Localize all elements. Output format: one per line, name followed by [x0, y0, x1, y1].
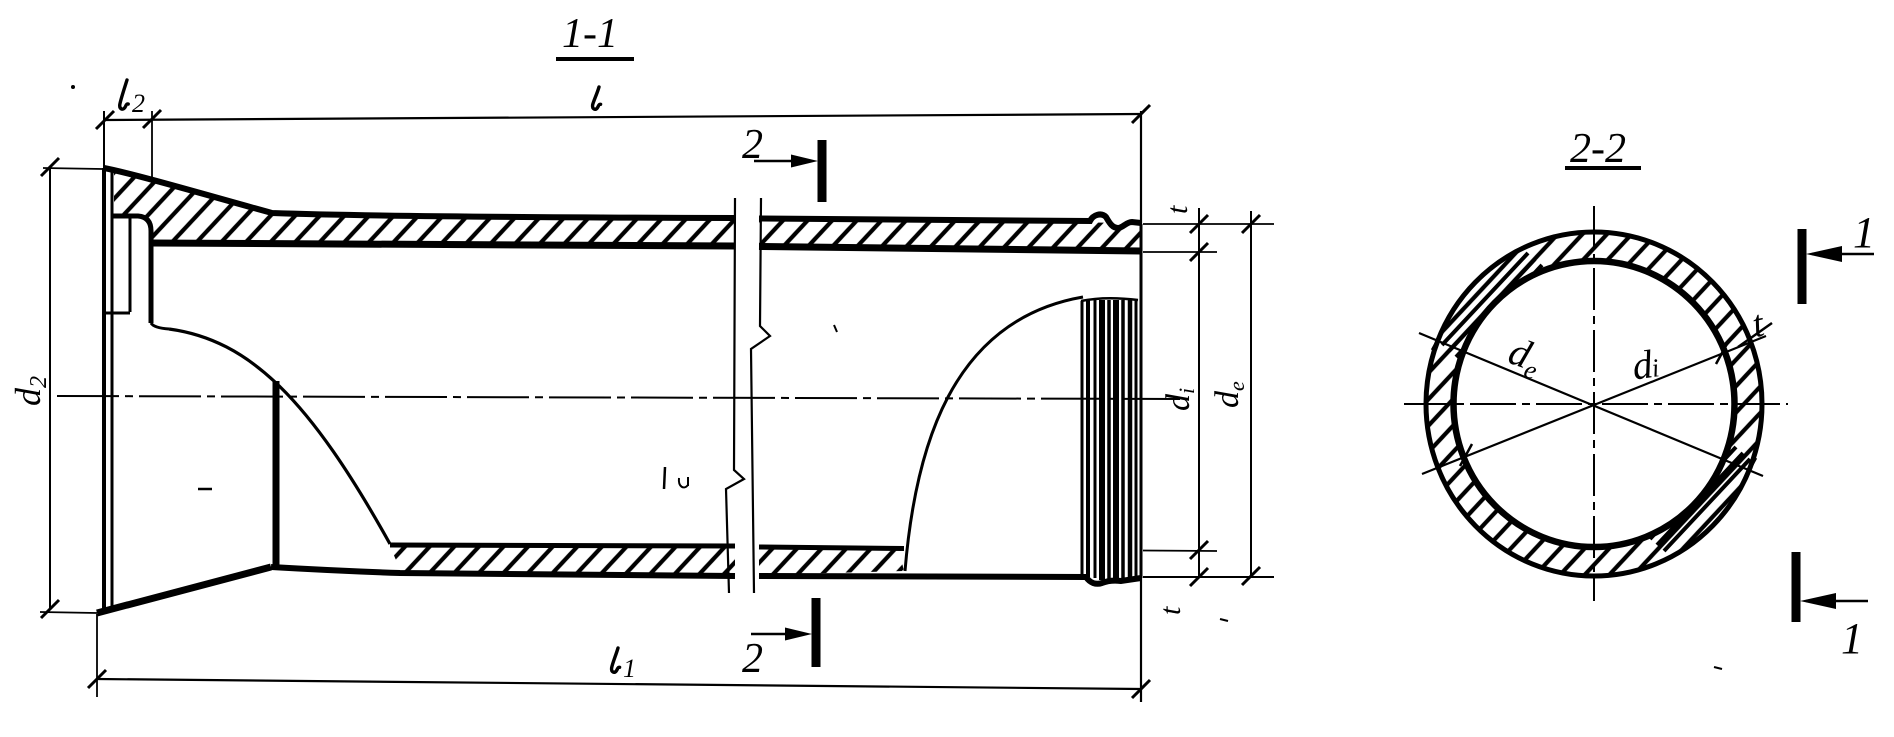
- svg-text:2: 2: [26, 376, 52, 388]
- svg-text:i: i: [1174, 388, 1199, 394]
- svg-text:d: d: [1160, 393, 1197, 411]
- svg-text:2: 2: [132, 89, 145, 118]
- svg-text:1: 1: [1853, 208, 1875, 257]
- svg-text:2: 2: [742, 636, 763, 682]
- svg-text:t: t: [1161, 205, 1194, 214]
- svg-text:1: 1: [623, 654, 636, 683]
- svg-text:1-1: 1-1: [562, 11, 618, 57]
- svg-text:t: t: [1154, 606, 1187, 615]
- svg-text:2-2: 2-2: [1570, 126, 1626, 172]
- svg-text:1: 1: [1841, 614, 1863, 663]
- svg-text:d: d: [8, 387, 48, 406]
- svg-text:e: e: [1224, 381, 1249, 391]
- svg-text:d: d: [1209, 390, 1246, 408]
- svg-text:2: 2: [742, 122, 763, 168]
